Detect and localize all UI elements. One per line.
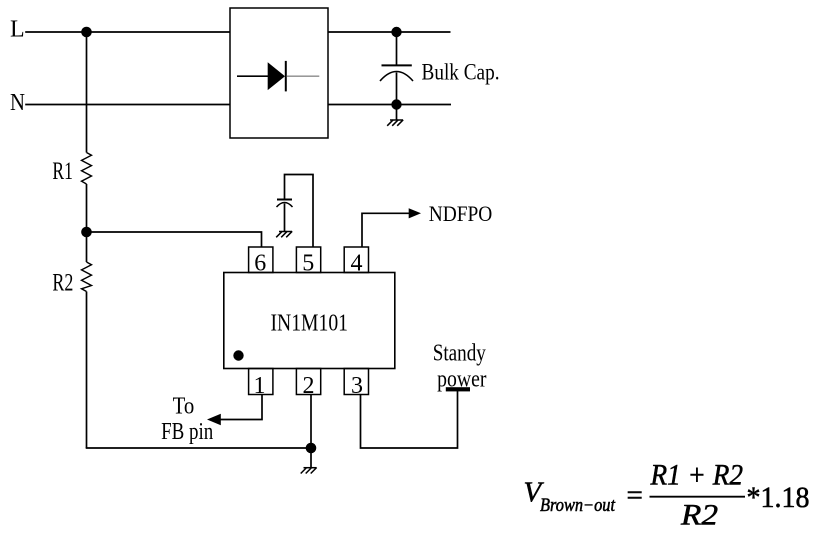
svg-text:L: L: [10, 16, 25, 42]
wire bottom rail to pin2 junction: [86, 447, 311, 449]
junction dot bulk cap top: [391, 27, 401, 37]
pin 4 box: [344, 247, 368, 273]
formula fraction bar: [650, 496, 746, 498]
svg-text:2: 2: [303, 373, 315, 399]
wire N to bridge: [25, 104, 230, 106]
svg-text:Standy: Standy: [433, 340, 486, 366]
wire node to pin 6: [87, 232, 262, 248]
wire pin2 to ground junction: [310, 395, 312, 449]
svg-text:4: 4: [351, 251, 363, 277]
svg-text:R1: R1: [52, 158, 73, 185]
svg-text:Bulk Cap.: Bulk Cap.: [422, 59, 500, 84]
wire pin4 to NDFPO: [362, 213, 410, 247]
svg-text:1: 1: [254, 373, 266, 399]
ground below bulk cap: [387, 105, 403, 126]
svg-text:NDFPO: NDFPO: [429, 201, 493, 226]
wire bridge to bulk cap bottom: [328, 104, 451, 106]
IC pin-1 indicator dot: [233, 350, 243, 360]
svg-text:To: To: [173, 394, 195, 420]
wire L to bridge: [25, 31, 230, 33]
wire pin5 to capacitor C1: [285, 175, 314, 248]
svg-text:5: 5: [302, 251, 314, 277]
bridge rectifier box: [230, 8, 328, 138]
wire pin1 to FB arrow: [221, 395, 263, 420]
wire left rail upper: [86, 32, 88, 153]
capacitor Bulk Cap: [380, 32, 413, 105]
resistor R2: [82, 262, 92, 292]
arrowhead NDFPO: [409, 208, 421, 218]
diode cathode line: [287, 75, 320, 77]
pin 2 box: [296, 369, 320, 395]
junction dot bulk cap bottom: [391, 99, 401, 109]
svg-text:R2: R2: [680, 499, 718, 532]
svg-text:R2: R2: [52, 270, 73, 297]
resistor R1: [82, 153, 92, 185]
svg-text:Brown−out: Brown−out: [540, 496, 616, 516]
wire left rail lower: [86, 292, 88, 449]
capacitor C1: [277, 200, 293, 232]
svg-text:*1.18: *1.18: [747, 481, 810, 514]
svg-text:R1 + R2: R1 + R2: [650, 458, 743, 491]
pin 3 box: [344, 369, 368, 395]
svg-text:6: 6: [254, 251, 266, 277]
ground below capacitor C1: [276, 231, 292, 237]
diode triangle: [268, 62, 285, 90]
arrowhead To FB pin: [207, 414, 221, 425]
standby power bar: [446, 387, 470, 391]
pin 1 box: [249, 369, 273, 395]
svg-text:N: N: [10, 90, 25, 116]
pin 5 box: [296, 247, 320, 273]
IC U1 body: [224, 273, 395, 369]
svg-text:=: =: [627, 480, 643, 512]
junction dot R1/R2 node: [81, 227, 92, 238]
junction dot pin2 ground: [306, 443, 317, 454]
junction dot on L wire: [81, 27, 92, 38]
wire R1 to node: [86, 184, 88, 232]
wire node to R2: [86, 232, 88, 262]
wire bridge to bulk cap top: [328, 31, 451, 33]
ground below pin2: [301, 448, 317, 474]
svg-text:power: power: [437, 366, 486, 392]
pin 6 box: [249, 247, 273, 273]
svg-text:IN1M101: IN1M101: [271, 311, 349, 337]
diode cathode bar: [285, 61, 287, 92]
svg-text:FB pin: FB pin: [161, 419, 213, 445]
wire pin3 to standby power: [361, 391, 458, 448]
diode anode line: [237, 75, 268, 77]
